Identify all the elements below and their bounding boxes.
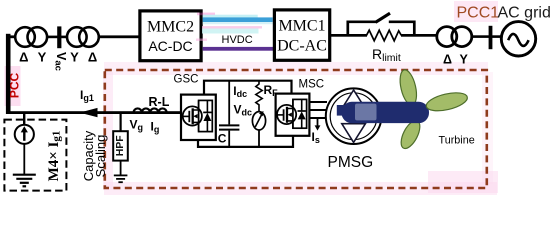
transformer T1 (Δ-Y) [437,27,472,47]
resistor RF [256,81,262,112]
wire (T3 to MMC2) [98,35,139,38]
svg-text:Δ: Δ [19,50,28,65]
generator PMSG [326,88,382,144]
rotor arrows inside PMSG [342,90,366,109]
svg-text:PCC: PCC [8,73,22,99]
svg-text:MMC1: MMC1 [278,18,325,35]
turbine blade (top) [397,68,419,106]
chopper source (Vdc measure) [252,112,265,130]
wire (MMC1 to resistor) [331,34,367,37]
svg-text:C: C [218,132,227,146]
wire (resistor to T1) [401,34,438,37]
highlight mark (pink, bottom edge of wind system box) [104,182,497,195]
highlight mark (cyan band above HVDC label) [202,29,259,34]
svg-text:PMSG: PMSG [328,154,374,171]
svg-text:MMC2: MMC2 [147,19,194,36]
highlight mark (pink, bottom-right corner) [428,171,498,193]
svg-text:HPF: HPF [114,135,126,157]
svg-text:Δ: Δ [88,50,97,65]
svg-text:Scaling: Scaling [93,135,108,178]
wire (main AC output, PCC to GSC) [6,111,182,114]
wire (3-phase MSC to PMSG) [309,102,327,118]
converter MMC2 [140,11,201,61]
ground (HPF) [114,175,128,182]
diode loop GSC [199,100,213,131]
svg-text:AC grid: AC grid [498,5,550,22]
highlight mark (pink, top edge of wind system box) [104,62,488,75]
transistor MSC (MOSFET with diode) [277,99,296,128]
AC grid source [501,22,535,56]
turbine blade (right) [425,89,469,114]
svg-text:R-L: R-L [149,95,170,109]
highlight mark (magenta dashes near MMC2 top right) [197,13,215,16]
dashed enclosure: aggregated equivalent source [4,120,66,191]
svg-text:GSC: GSC [174,74,199,86]
wire HVDC positive pole (blue) [203,17,273,22]
highlight mark (pink, left edge of wind system box) [103,72,113,190]
label HPF (rotated) [114,135,126,157]
turbine nacelle (shaft) [337,105,345,116]
highlight mark (pink, right edge) [482,72,493,184]
highlight mark (cyan below HVDC+) [203,22,273,24]
svg-text:HVDC: HVDC [222,34,253,46]
dashed enclosure: wind turbine generation system [105,70,487,188]
label Capacity Scaling (rotated) [81,130,96,181]
transformer T3 MMC2 side (Y-Δ) [67,27,99,47]
ground (current source) [13,175,36,187]
label Vac (rotated) [53,52,68,71]
wire (source to main wire) [23,113,25,126]
label PCC (red, rotated) [8,73,22,99]
wire (HPF to ground) [120,161,122,175]
diode loop MSC [293,99,307,128]
wire (T1 to PCC1) [472,35,503,38]
HPF filter box [113,131,128,160]
wire (HPF tap) [120,113,122,132]
wire HVDC negative pole (purple) [203,47,276,51]
bypass switch (breaker) [348,13,415,36]
svg-text:Turbine: Turbine [439,135,475,147]
svg-text:Y: Y [70,50,79,65]
nacelle glass overlay [355,104,377,121]
highlight mark (pink line under HVDC+) [202,26,262,28]
node Vac measurement bar [57,26,61,48]
highlight mark (pink behind PCC label) [5,66,21,106]
current source M4xIg1 [15,125,34,144]
converter GSC box [181,95,216,140]
current arrow Ig1 [80,108,98,117]
wire (PCC bus vertical) [6,34,11,114]
inductor R-L [134,108,167,112]
current arrow Is [317,118,319,128]
resistor Rlimit [367,30,402,41]
svg-text:Δ: Δ [443,53,452,67]
svg-text:AC-DC: AC-DC [148,38,192,54]
svg-text:MSC: MSC [299,79,325,91]
svg-text:Y: Y [38,50,47,65]
node PCC1 bar [489,26,493,49]
converter MSC box [276,94,310,136]
turbine blade (bottom) [397,118,423,152]
wire (through Vac bar) [46,36,68,39]
wire DC link bottom rail [198,128,293,147]
svg-text:PCC1: PCC1 [457,5,500,22]
transistor GSC (MOSFET with diode) [183,100,202,131]
svg-text:Y: Y [460,53,469,67]
wire (bus to transformer stub) [8,35,17,38]
capacitor C [228,81,230,125]
highlight mark (pink behind PCC1 label) [454,1,498,22]
label M4x Ig1 (rotated) [46,131,63,182]
wire DC link top rail [204,81,292,95]
converter MMC1 [274,10,329,60]
wire (source to ground) [23,144,25,175]
highlight mark (cyan above HVDC+) [203,15,258,18]
svg-text:DC-AC: DC-AC [277,38,327,55]
transformer T2 grid side (Δ-Y) [15,27,47,47]
